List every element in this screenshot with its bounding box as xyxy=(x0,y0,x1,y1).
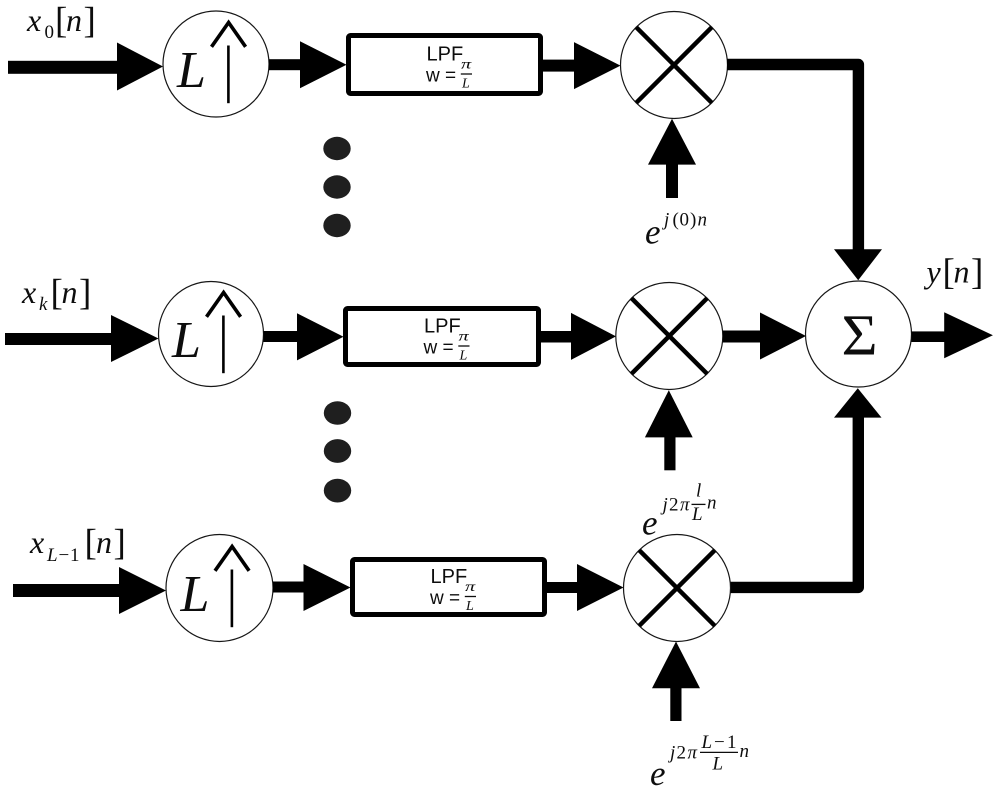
node e^j2pi(l/L)n label xyxy=(642,481,717,543)
svg-text:l: l xyxy=(696,481,701,502)
wire input arrow row2 xyxy=(5,315,159,362)
svg-text:j: j xyxy=(661,209,669,230)
svg-text:n: n xyxy=(698,209,708,230)
wire carrier arrow into M1 xyxy=(648,119,696,198)
svg-text:L: L xyxy=(712,754,724,775)
wire input arrow row3 xyxy=(13,567,166,614)
svg-text:1: 1 xyxy=(70,545,80,566)
svg-text:x: x xyxy=(29,524,44,560)
svg-text:n: n xyxy=(62,274,78,310)
svg-text:n: n xyxy=(96,524,112,560)
upsampler U1 (L up) xyxy=(163,11,269,117)
svg-text:L: L xyxy=(46,545,58,566)
svg-text:π: π xyxy=(688,742,698,763)
svg-text:w =: w = xyxy=(425,66,456,87)
svg-text:π: π xyxy=(465,578,477,594)
svg-text:j: j xyxy=(660,495,668,516)
svg-text:L: L xyxy=(459,349,468,364)
upsampler U2 (L up) xyxy=(159,282,264,387)
svg-text:LPF: LPF xyxy=(424,316,461,338)
svg-text:e: e xyxy=(650,754,666,792)
svg-text:0: 0 xyxy=(45,22,55,43)
svg-text:LPF: LPF xyxy=(427,44,464,66)
wire LPF3 to M3 xyxy=(547,564,624,611)
node e^j(0)n label xyxy=(645,209,707,251)
node xL-1[n] input label xyxy=(29,523,126,567)
summer sigma xyxy=(806,281,912,387)
node x0[n] input label xyxy=(26,1,96,44)
upsampler U3 (L up) xyxy=(166,535,273,642)
node xk[n] input label xyxy=(21,273,91,316)
svg-text:L: L xyxy=(171,312,201,369)
filter LPF3 box xyxy=(353,560,545,615)
svg-text:−: − xyxy=(714,732,725,753)
wire M1 output to summer (corner) xyxy=(727,65,882,281)
svg-text:0: 0 xyxy=(680,209,690,230)
svg-text:n: n xyxy=(66,2,82,38)
wire U2 to LPF2 xyxy=(264,313,344,360)
svg-text:L: L xyxy=(465,599,474,614)
svg-text:L: L xyxy=(701,732,713,753)
svg-text:L: L xyxy=(176,42,206,99)
svg-text:L: L xyxy=(180,566,210,623)
node e^j2pi((L-1)/L)n label xyxy=(650,732,749,792)
svg-text:[: [ xyxy=(85,523,97,564)
wire M2 to summer xyxy=(723,313,806,360)
filter LPF1 box xyxy=(349,36,541,94)
svg-text:]: ] xyxy=(971,252,983,293)
wire input arrow row1 xyxy=(8,43,163,91)
svg-text:L: L xyxy=(691,504,703,525)
svg-text:π: π xyxy=(459,328,471,344)
node y[n] output label xyxy=(924,252,984,293)
dots between row2 and row3 xyxy=(324,401,351,502)
svg-text:]: ] xyxy=(84,1,96,42)
svg-text:]: ] xyxy=(114,523,126,564)
svg-text:L: L xyxy=(461,77,470,92)
svg-text:]: ] xyxy=(79,273,91,314)
svg-text:Σ: Σ xyxy=(841,302,877,367)
filter LPF2 box xyxy=(346,309,539,365)
svg-text:y: y xyxy=(924,254,942,290)
svg-text:): ) xyxy=(690,209,696,230)
multiplier M3 xyxy=(624,535,731,642)
svg-text:x: x xyxy=(26,2,41,38)
svg-text:e: e xyxy=(642,504,658,543)
multiplier M2 xyxy=(616,283,723,390)
svg-text:LPF: LPF xyxy=(431,566,468,588)
svg-text:w =: w = xyxy=(423,338,454,359)
svg-text:e: e xyxy=(645,213,661,252)
svg-text:n: n xyxy=(954,254,970,290)
svg-text:π: π xyxy=(461,56,473,72)
svg-text:−: − xyxy=(59,545,70,566)
wire LPF1 to M1 xyxy=(543,42,621,89)
svg-text:n: n xyxy=(707,493,717,514)
wire carrier arrow into M2 xyxy=(645,390,693,470)
wire LPF2 to M2 xyxy=(541,313,616,360)
svg-text:k: k xyxy=(39,294,48,315)
svg-text:2: 2 xyxy=(677,742,687,763)
svg-text:x: x xyxy=(21,274,36,310)
wire row3 output to summer (corner up) xyxy=(731,388,882,587)
svg-text:n: n xyxy=(740,741,750,762)
wire summer output arrow xyxy=(912,312,993,358)
svg-text:w =: w = xyxy=(429,588,460,609)
dots between row1 and row2 xyxy=(323,137,350,237)
wire U3 to LPF3 xyxy=(273,564,351,611)
svg-text:1: 1 xyxy=(727,732,737,753)
svg-text:j: j xyxy=(667,742,675,763)
svg-text:(: ( xyxy=(673,209,679,230)
multiplier M1 xyxy=(621,12,728,119)
wire U1 to LPF1 xyxy=(269,41,347,88)
wire carrier arrow into M3 xyxy=(652,642,700,722)
svg-text:2: 2 xyxy=(669,495,679,516)
svg-text:π: π xyxy=(680,495,690,516)
